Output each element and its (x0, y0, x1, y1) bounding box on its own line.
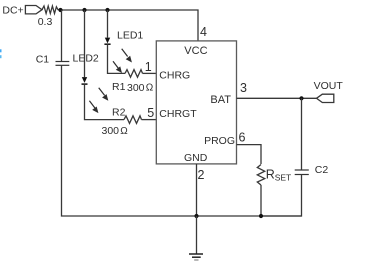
IC U1 battery charger body (156, 41, 236, 164)
wire top rail (59, 10, 198, 41)
svg-text:2: 2 (198, 168, 205, 182)
svg-text:6: 6 (239, 131, 246, 145)
node junction LED1 branch (105, 8, 109, 12)
blue scan artifact (0, 55, 2, 58)
svg-text:VCC: VCC (184, 45, 207, 57)
svg-text:C2: C2 (315, 164, 329, 176)
capacitor C2 (295, 170, 309, 175)
wire C2 top (301, 98, 303, 170)
connector tag VOUT (317, 94, 334, 102)
svg-text:CHRGT: CHRGT (159, 108, 197, 120)
LED D1 arrows (113, 49, 131, 72)
ground (189, 216, 203, 260)
node junction LED2 branch (82, 8, 86, 12)
svg-text:300: 300 (127, 82, 145, 94)
blue scan artifact (0, 49, 2, 52)
wire LED1 anode (107, 10, 109, 38)
svg-text:CHRG: CHRG (159, 70, 190, 82)
wire R2 to pin5 (142, 119, 157, 121)
capacitor C1 (56, 62, 70, 66)
wire LED2 anode (84, 10, 86, 77)
svg-text:0.3: 0.3 (38, 16, 53, 28)
resistor 0.3 (fuse/sense) (42, 6, 60, 14)
resistor R2 (124, 116, 142, 124)
svg-text:3: 3 (240, 81, 247, 95)
wire PROG pin6 (237, 145, 262, 164)
LED D2 diode (82, 77, 88, 84)
svg-text:Ω: Ω (146, 83, 154, 94)
wire LED1 cathode to R1 (108, 44, 126, 73)
LED D1 diode (104, 38, 110, 45)
svg-text:300: 300 (102, 125, 120, 137)
node junction RSET/rail (259, 214, 263, 218)
svg-text:GND: GND (184, 152, 208, 164)
resistor R1 (125, 70, 143, 78)
wire LED2 cathode to R2 (85, 84, 125, 120)
svg-text:C1: C1 (36, 54, 50, 66)
resistor RSET (257, 165, 264, 186)
node junction GND/rail (194, 214, 198, 218)
wire BAT pin3 (237, 97, 317, 99)
svg-text:LED2: LED2 (73, 53, 99, 65)
svg-text:R2: R2 (112, 107, 126, 119)
wire C2 bottom (261, 175, 302, 217)
wire C1 top (61, 10, 63, 62)
svg-text:BAT: BAT (210, 94, 231, 106)
svg-text:R1: R1 (112, 81, 126, 93)
wire C1 bottom to rail (62, 65, 302, 216)
wire RSET bottom (260, 185, 262, 216)
wire R1 to pin1 (143, 72, 157, 74)
LED D2 arrows (89, 88, 107, 112)
node junction VOUT (299, 96, 303, 100)
svg-text:DC+: DC+ (2, 5, 23, 17)
svg-text:Ω: Ω (120, 126, 128, 137)
svg-text:LED1: LED1 (117, 30, 143, 42)
svg-text:4: 4 (200, 25, 207, 39)
svg-text:VOUT: VOUT (314, 80, 344, 92)
wire GND pin2 (196, 164, 198, 216)
svg-text:5: 5 (147, 106, 154, 120)
connector tag DC+ (25, 6, 42, 14)
node junction after fuse (58, 8, 62, 12)
svg-text:1: 1 (145, 60, 152, 74)
svg-text:PROG: PROG (204, 135, 235, 147)
